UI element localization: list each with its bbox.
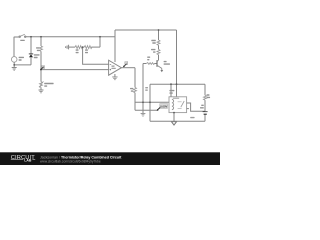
svg-text:0.00V: 0.00V (160, 104, 167, 108)
svg-text:LAB: LAB (24, 159, 32, 163)
svg-text:www.circuitlab.com/circuit/6v9: www.circuitlab.com/circuit/6v98f4y9y7kbe (40, 160, 101, 164)
